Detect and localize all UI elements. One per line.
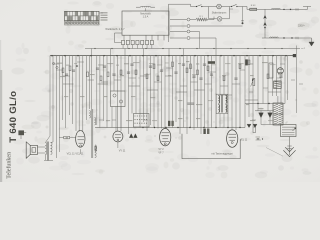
- svg-text:VCL 11 VCL 11: VCL 11 VCL 11: [67, 153, 84, 156]
- svg-text:VF 7: VF 7: [158, 151, 164, 154]
- svg-text:VEL 11: VEL 11: [240, 140, 248, 142]
- svg-text:R 43: R 43: [251, 5, 256, 7]
- svg-text:220V~: 220V~: [298, 25, 306, 28]
- svg-text:1,5 A: 1,5 A: [143, 15, 149, 18]
- svg-text:T 640 GL/o: T 640 GL/o: [8, 91, 19, 143]
- svg-text:VY 11: VY 11: [119, 150, 126, 153]
- svg-text:Skalenlampen: Skalenlampen: [212, 12, 227, 14]
- svg-text:mit Tastenaggregat: mit Tastenaggregat: [211, 153, 233, 156]
- svg-text:Telefunken: Telefunken: [6, 152, 13, 179]
